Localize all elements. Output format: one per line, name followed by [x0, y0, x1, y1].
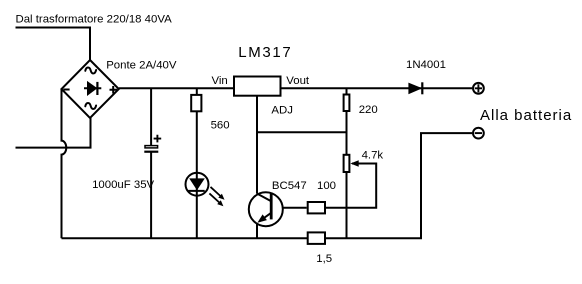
wire: pot wiper return to base resistor	[326, 164, 376, 208]
positive output terminal	[473, 83, 484, 94]
resistor 100	[308, 202, 325, 213]
bridge rectifier Ponte 2A/40V : diamond outline	[62, 60, 119, 118]
voltage regulator LM317	[234, 77, 281, 96]
svg-text:1N4001: 1N4001	[406, 59, 446, 71]
wire: capacitor branch	[150, 88, 152, 145]
potentiometer 4.7k	[344, 155, 350, 172]
capacitor bottom plate	[144, 151, 158, 153]
bridge AC tilde (bottom)	[85, 103, 96, 109]
svg-text:1,5: 1,5	[316, 253, 332, 265]
wire: bridge negative lead with hop over bottom lead	[62, 89, 67, 238]
resistor 220	[344, 95, 350, 112]
potentiometer wiper arrowhead	[350, 160, 358, 167]
bridge plus mark	[110, 86, 118, 94]
wire: transformer bottom lead	[16, 118, 91, 148]
LED	[186, 173, 209, 196]
negative output terminal	[473, 128, 484, 139]
svg-text:LM317: LM317	[238, 44, 292, 61]
transistor base bar	[270, 193, 273, 219]
svg-text:560: 560	[211, 119, 230, 131]
wire: transformer top lead	[16, 28, 91, 61]
transistor BC547	[249, 192, 283, 226]
svg-text:Vin: Vin	[212, 75, 228, 87]
svg-text:4.7k: 4.7k	[362, 150, 384, 162]
wire: ADJ to divider junction	[257, 131, 347, 133]
bridge internal diode	[84, 87, 101, 89]
svg-text:Vout: Vout	[286, 75, 310, 87]
svg-text:Dal trasformatore 220/18 40VA: Dal trasformatore 220/18 40VA	[16, 13, 173, 25]
resistor 560	[191, 95, 201, 111]
capacitor plus mark	[154, 135, 162, 143]
wire: emitter to ground	[256, 223, 258, 239]
diode 1N4001	[408, 83, 422, 95]
svg-text:220: 220	[359, 104, 378, 116]
wire: ADJ lead down to collector	[256, 97, 258, 194]
wire: ground rail to negative terminal	[62, 133, 473, 238]
svg-text:ADJ: ADJ	[271, 105, 293, 117]
wire: 220/pot branch	[346, 88, 348, 238]
resistor 1.5	[308, 232, 325, 244]
wire: base lead	[272, 207, 307, 209]
transistor emitter diagonal	[260, 213, 272, 221]
svg-text:100: 100	[317, 180, 336, 192]
LED light arrow 2	[209, 193, 220, 203]
svg-text:BC547: BC547	[272, 180, 307, 192]
transistor collector diagonal	[257, 194, 271, 202]
wire: main positive rail	[119, 87, 472, 89]
svg-text:Ponte 2A/40V: Ponte 2A/40V	[106, 60, 177, 72]
svg-text:1000uF 35V: 1000uF 35V	[92, 179, 154, 191]
LED light arrow 1	[211, 187, 222, 197]
svg-text:Alla batteria: Alla batteria	[480, 107, 572, 124]
transistor emitter arrowhead	[257, 214, 267, 222]
wire: 560/LED branch	[196, 88, 198, 238]
bridge minus mark	[64, 89, 70, 91]
bridge AC tilde (top)	[85, 68, 96, 74]
capacitor 1000uF 35V : top plate (hollow)	[145, 146, 158, 148]
